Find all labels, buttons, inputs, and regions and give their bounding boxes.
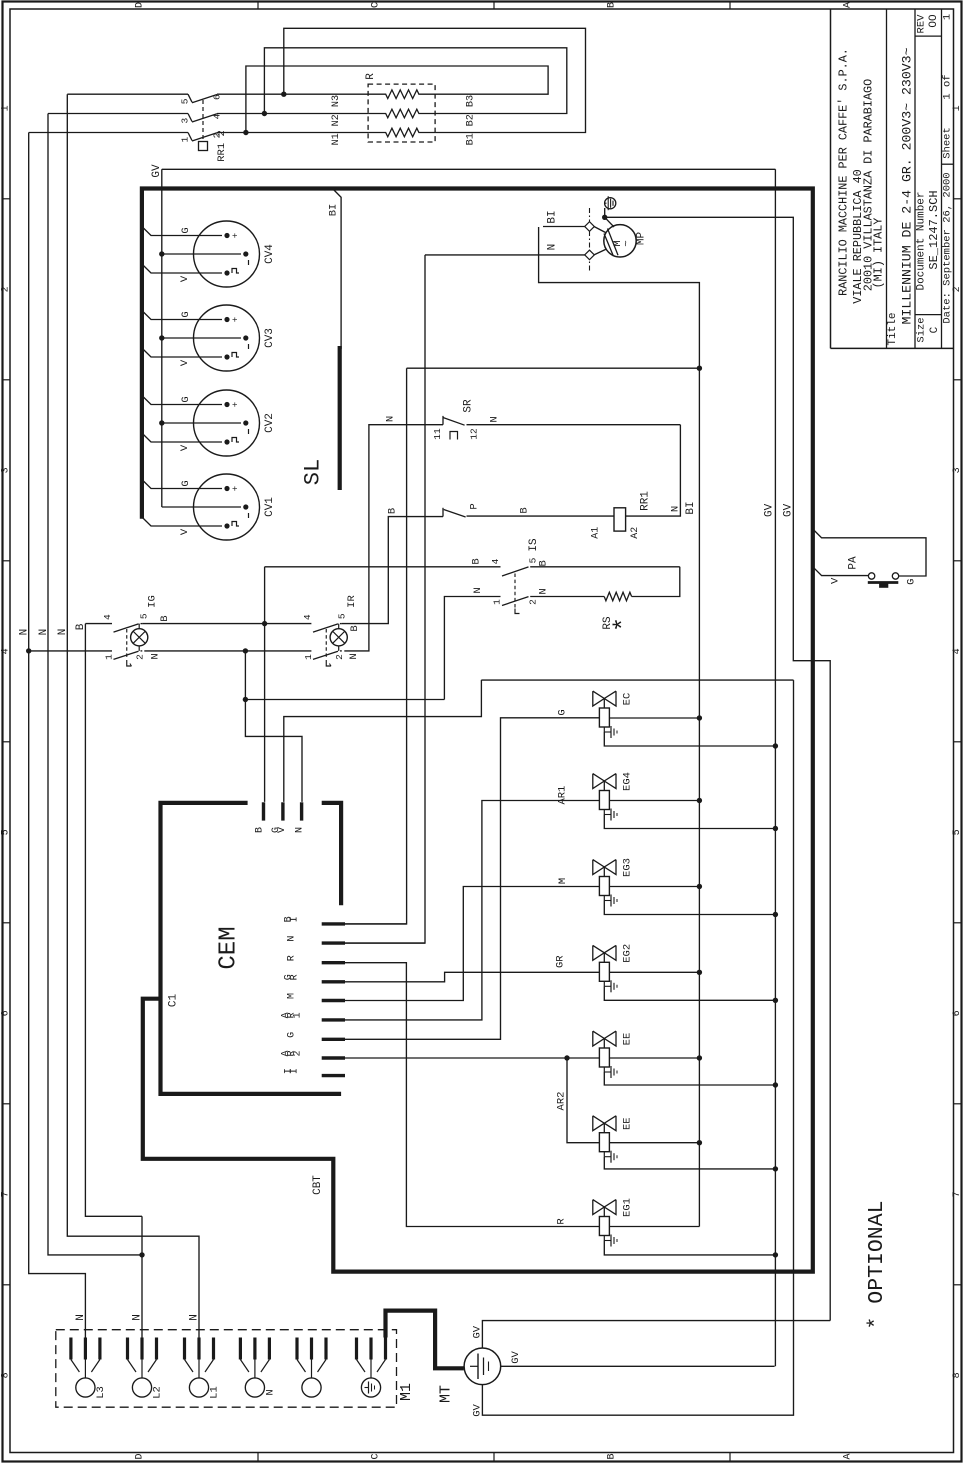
solenoid valve EC: [593, 691, 605, 706]
svg-text:IR: IR: [346, 595, 358, 608]
svg-text:N2: N2: [331, 114, 342, 126]
svg-text:N: N: [150, 653, 162, 659]
EE coil: [599, 1133, 609, 1152]
svg-text:EG1: EG1: [622, 1198, 634, 1217]
junction BI bus at EG3: [697, 884, 702, 889]
svg-text:G: G: [180, 480, 192, 486]
svg-text:Title: Title: [887, 312, 899, 345]
wire N rail R3 to M1-L1: [67, 94, 199, 1337]
junction GV/CV2: [159, 420, 164, 425]
IS latch hook: [515, 609, 520, 614]
pressure switch PA: [868, 573, 874, 579]
wire AR2 pin to EE: [345, 1057, 599, 1059]
svg-text:A2: A2: [630, 527, 641, 539]
EC coil: [599, 708, 609, 727]
main earth terminal MT: [464, 1348, 501, 1385]
svg-text:N: N: [538, 588, 550, 594]
EG3 coil: [599, 877, 609, 896]
svg-text:CV2: CV2: [264, 413, 276, 433]
svg-text:G: G: [556, 709, 568, 715]
CEM pin N: [322, 941, 345, 944]
wire N rail R2 to M1-L2: [48, 114, 142, 1255]
svg-text:V: V: [179, 444, 191, 451]
svg-text:B: B: [255, 827, 266, 833]
wire B rail R4 from M1-L2 to IG: [85, 624, 142, 1217]
junction EE/GV: [773, 1166, 778, 1171]
svg-text:2: 2: [952, 286, 963, 292]
svg-text:GV: GV: [764, 503, 776, 517]
wire G to CV2: [142, 396, 222, 405]
svg-text:3: 3: [952, 467, 963, 473]
svg-text:L2: L2: [152, 1386, 164, 1399]
svg-text:AR2: AR2: [556, 1092, 568, 1111]
svg-text:I: I: [290, 1068, 301, 1074]
pulse glyph: [232, 522, 239, 527]
junction N riser: [243, 648, 248, 653]
junction EE/GV: [773, 1082, 778, 1087]
svg-text:N: N: [669, 506, 681, 512]
M1 terminal L2: [126, 1338, 129, 1360]
wire M pin to EG3: [345, 887, 599, 1001]
CEM pin AR1: [322, 1018, 345, 1021]
svg-text:N: N: [295, 827, 306, 833]
pulse glyph: [232, 438, 239, 443]
svg-text:+: +: [231, 486, 241, 491]
wire AR2 to EE lower: [567, 1058, 599, 1143]
solenoid valve EG1: [593, 1200, 605, 1215]
wire heater loop B2: [264, 48, 566, 114]
junction N branch: [243, 697, 248, 702]
svg-text:CBT: CBT: [312, 1175, 324, 1195]
title block: [830, 9, 832, 348]
wire N riser to CEM pin N(top): [245, 651, 302, 802]
svg-text:N: N: [57, 629, 69, 636]
CEM pin R: [322, 961, 345, 964]
svg-text:B: B: [471, 558, 483, 564]
svg-text:5: 5: [952, 829, 963, 835]
CEM pin GR: [322, 980, 345, 983]
solenoid valve EE: [593, 1031, 605, 1046]
svg-text:Size: Size: [916, 317, 928, 342]
volumetric doser CV1: [194, 474, 260, 540]
junction EG2/GV: [773, 998, 778, 1003]
CEM top pin GV: [281, 802, 284, 820]
CEM top pin B: [262, 802, 265, 820]
lighted switch IR: [310, 623, 312, 625]
CEM top pin N: [300, 802, 303, 820]
svg-text:SL: SL: [301, 459, 326, 485]
EG2 ground symbol: [603, 981, 605, 986]
svg-text:B2: B2: [466, 114, 477, 126]
pulse glyph: [232, 269, 239, 274]
svg-text:M1: M1: [398, 1383, 415, 1401]
wire EG4 to BI bus: [609, 800, 699, 802]
svg-text:G: G: [905, 579, 917, 585]
wire EG3 coil to GV rail: [604, 901, 775, 915]
svg-text:L1: L1: [209, 1386, 221, 1399]
junction B riser/IG-IR wire: [262, 621, 267, 626]
svg-text:G: G: [287, 1032, 298, 1038]
solenoid valve EG3: [593, 860, 605, 875]
PA plate: [868, 581, 899, 584]
switch P: [442, 508, 444, 517]
solenoid valve EG4: [593, 774, 605, 789]
wire to RR1 coil A2: [626, 425, 681, 516]
svg-text:D: D: [135, 2, 146, 8]
svg-text:BI: BI: [327, 204, 339, 217]
CEM pin AR2: [322, 1056, 345, 1059]
contactor RR1 pole 5-6: [188, 94, 192, 102]
svg-text:N: N: [472, 587, 484, 593]
junction EG1/GV: [773, 1252, 778, 1257]
wire EE to BI bus: [609, 1142, 699, 1144]
svg-text:RR1 2: RR1 2: [216, 130, 228, 162]
IG mech link: [126, 629, 128, 659]
wire V to CV2: [142, 433, 222, 442]
svg-text:R: R: [556, 1218, 568, 1225]
wire center to CV2: [162, 422, 241, 424]
wire BI riser to CEM pin BI: [345, 368, 407, 924]
svg-text:1: 1: [952, 105, 963, 111]
svg-text:1: 1: [180, 137, 191, 143]
CEM pin BI: [322, 922, 345, 925]
wire B feed to IS.4: [265, 566, 501, 568]
junction EG4/GV: [773, 826, 778, 831]
wire RS to B row: [632, 567, 680, 597]
svg-text:EC: EC: [622, 693, 634, 706]
PA stem: [880, 584, 888, 587]
svg-text:B: B: [387, 508, 399, 514]
svg-text:5: 5: [1, 829, 12, 835]
terminal block M1 dashed box: [56, 1330, 397, 1408]
EE ground symbol: [603, 1152, 605, 1157]
wire N IR.2 to SR switch: [344, 425, 443, 651]
svg-text:GV: GV: [471, 1404, 483, 1417]
svg-text:BI: BI: [685, 501, 697, 514]
wire heater loop B3: [246, 66, 548, 133]
svg-text:CV1: CV1: [264, 497, 276, 517]
svg-text:4: 4: [102, 614, 113, 620]
wire GV branch horizontal: [481, 679, 793, 681]
svg-text:BI: BI: [547, 210, 559, 223]
volumetric doser CV3: [194, 305, 260, 371]
svg-text:C: C: [929, 326, 941, 333]
wire V to CV3: [142, 348, 222, 357]
svg-text:M: M: [287, 993, 298, 999]
wire BI pin to riser: [345, 923, 407, 925]
svg-text:12: 12: [469, 428, 480, 440]
wire B riser to CEM pin B: [264, 567, 266, 802]
wire EC to BI bus: [609, 717, 699, 719]
junction BI bus at EE: [697, 1140, 702, 1145]
RR1 mechanical link dashed: [202, 100, 204, 141]
junction L2 drop: [139, 1252, 144, 1257]
resistor element at 94.2: [368, 90, 435, 99]
EG4 ground symbol: [603, 810, 605, 815]
M1 terminal L1: [183, 1338, 186, 1360]
svg-text:EE: EE: [622, 1033, 634, 1046]
svg-text:1: 1: [492, 599, 503, 605]
wire EE to BI bus: [609, 1057, 699, 1059]
svg-text:MILLENNIUM DE 2-4 GR. 200V3~ 2: MILLENNIUM DE 2-4 GR. 200V3~ 230V3~: [900, 47, 915, 324]
svg-text:B3: B3: [466, 95, 477, 107]
svg-text:EE: EE: [622, 1117, 634, 1130]
RR1 actuator square: [199, 142, 208, 151]
wire EG3 to BI bus: [609, 886, 699, 888]
wire N rail R1 to M1-L3: [29, 133, 86, 1338]
svg-text:6: 6: [212, 94, 223, 100]
wire EG1 to BI bus: [609, 1226, 699, 1228]
svg-text:OO: OO: [928, 14, 940, 28]
wire N pin to rail: [345, 942, 425, 944]
wire G to CV3: [142, 311, 222, 320]
svg-text:+: +: [231, 317, 241, 322]
svg-text:N: N: [75, 1314, 87, 1321]
svg-text:8: 8: [952, 1372, 963, 1378]
wire GV MT bottom to CEM branch: [482, 680, 793, 1415]
svg-text:4: 4: [952, 648, 963, 654]
svg-text:Document Number: Document Number: [916, 191, 928, 290]
svg-text:N: N: [385, 416, 397, 422]
svg-text:G: G: [180, 396, 192, 402]
junction BI bus at EE: [697, 1055, 702, 1060]
IR latch hook: [326, 660, 331, 666]
svg-text:1: 1: [104, 654, 115, 660]
wire GR pin to EG2: [345, 972, 599, 982]
wire AR1 pin to EG4: [345, 801, 599, 1020]
svg-text:7: 7: [1, 1191, 12, 1197]
resistor element at 132.5: [368, 128, 435, 137]
svg-text:PA: PA: [848, 556, 860, 570]
svg-text:SR: SR: [463, 399, 475, 413]
svg-text:6: 6: [1, 1010, 12, 1016]
wire PA V-side from thick rail: [813, 567, 869, 576]
wire EE coil to GV rail: [604, 1157, 775, 1169]
wire supply row N2: [48, 113, 188, 115]
wire G to CV1: [142, 480, 222, 489]
svg-text:Sheet: Sheet: [942, 127, 954, 159]
wire EG4 coil to GV rail: [604, 815, 775, 829]
svg-text:C: C: [371, 2, 382, 8]
wire N branch to IS: [245, 699, 444, 701]
control unit CEM box: [161, 803, 342, 1094]
wire GV to CEM pin GV: [284, 680, 482, 802]
EC ground symbol: [603, 727, 605, 732]
svg-text:B: B: [518, 507, 530, 513]
svg-text:V: V: [277, 827, 288, 833]
wire R pin to EG1: [345, 963, 599, 1227]
svg-text:~: ~: [621, 240, 633, 246]
svg-text:R: R: [287, 955, 298, 961]
svg-text:(MI) ITALY: (MI) ITALY: [872, 218, 886, 289]
thick enclosure line top edge: [142, 189, 813, 1272]
svg-text:N: N: [188, 1314, 200, 1321]
svg-text:B: B: [75, 623, 87, 630]
SR spring-return glyph: [450, 432, 458, 440]
solenoid valve EE: [593, 1116, 605, 1131]
svg-text:Date: September 26, 2000: Date: September 26, 2000: [942, 172, 954, 323]
svg-text:7: 7: [952, 1191, 963, 1197]
svg-text:3: 3: [1, 467, 12, 473]
svg-text:1: 1: [942, 14, 954, 20]
CEM pin II: [322, 1074, 345, 1077]
svg-text:GR: GR: [555, 955, 567, 968]
wire center to CV4: [162, 253, 241, 255]
svg-text:N: N: [264, 1389, 276, 1395]
svg-text:P: P: [469, 503, 481, 509]
wire heater loop B1: [284, 28, 586, 132]
svg-text:EG3: EG3: [622, 858, 634, 877]
wire V to CV1: [142, 517, 222, 526]
thick bar SL: [338, 346, 342, 490]
svg-text:1 of: 1 of: [942, 74, 954, 99]
svg-text:N: N: [38, 629, 50, 636]
svg-text:N1: N1: [331, 133, 342, 145]
svg-text:+: +: [231, 402, 241, 407]
CEM pin M: [322, 999, 345, 1002]
junction N1/B3: [243, 130, 248, 135]
svg-text:4: 4: [490, 558, 501, 564]
svg-text:2: 2: [135, 654, 146, 660]
wire G pin to EC: [345, 718, 599, 1040]
wire B P out to coil A1: [467, 515, 615, 517]
svg-text:EG4: EG4: [622, 772, 634, 791]
svg-text:3: 3: [180, 118, 191, 124]
svg-text:1: 1: [303, 654, 314, 660]
junction GV/CV4: [159, 251, 164, 256]
svg-text:1: 1: [1, 105, 12, 111]
wire EG2 coil to GV rail: [604, 986, 775, 1000]
svg-text:REV: REV: [916, 14, 928, 34]
wire GV vertical to CV pins: [161, 169, 163, 507]
wire GV MT top to MP rail: [482, 1321, 830, 1348]
svg-text:AR1: AR1: [556, 786, 568, 805]
wire N2 to heater: [217, 113, 368, 115]
junction BI bus at EG2: [697, 970, 702, 975]
svg-text:2: 2: [293, 1050, 304, 1056]
wire supply row N3: [67, 93, 188, 95]
svg-text:G: G: [180, 227, 192, 233]
svg-text:*: *: [609, 617, 638, 632]
svg-text:GV: GV: [510, 1351, 522, 1364]
svg-text:4: 4: [1, 648, 12, 654]
wire BI bus down valves: [698, 368, 700, 1226]
svg-text:C1: C1: [168, 994, 180, 1008]
wire N rail MP to CEM pin N: [345, 255, 425, 943]
MP terminal diamonds + connector line: [589, 208, 591, 272]
svg-text:MT: MT: [437, 1385, 454, 1403]
wire GV top horizontal: [162, 168, 776, 170]
svg-text:MP: MP: [635, 232, 647, 246]
svg-text:N: N: [132, 1314, 144, 1321]
resistor RS (optional): [604, 592, 631, 601]
EG3 ground symbol: [603, 896, 605, 901]
svg-text:EG2: EG2: [622, 944, 634, 963]
M1 terminal L3: [69, 1338, 72, 1360]
wire B from IG.5 to IR.4: [142, 623, 311, 625]
junction AR2 split: [564, 1055, 569, 1060]
wire EC coil to GV rail: [604, 732, 775, 746]
svg-text:11: 11: [432, 428, 443, 440]
IR mech link: [325, 629, 327, 659]
relay coil RR1: [614, 508, 626, 531]
svg-text:N3: N3: [331, 95, 342, 107]
wire V to CV4: [142, 264, 222, 273]
contactor RR1 pole 3-4: [188, 114, 192, 122]
EE ground symbol: [603, 1067, 605, 1072]
EG1 coil: [599, 1217, 609, 1236]
svg-text:4: 4: [302, 614, 313, 620]
volumetric doser CV4: [194, 221, 260, 287]
svg-text:RR1: RR1: [640, 491, 652, 511]
wire B IS.5 out: [530, 566, 680, 568]
svg-text:CV4: CV4: [264, 244, 276, 264]
wire center to CV1: [162, 506, 241, 508]
svg-text:* OPTIONAL: * OPTIONAL: [865, 1200, 889, 1329]
svg-text:M: M: [557, 878, 569, 884]
junction BI bus at EC: [697, 715, 702, 720]
svg-text:2: 2: [528, 599, 539, 605]
svg-text:CEM: CEM: [216, 926, 243, 969]
svg-text:B: B: [607, 2, 618, 8]
junction N rail to IG: [26, 648, 31, 653]
junction EC/GV: [773, 743, 778, 748]
EG2 coil: [599, 962, 609, 981]
svg-text:N: N: [547, 244, 559, 251]
svg-text:5: 5: [180, 98, 191, 104]
M1 terminal N: [239, 1338, 242, 1360]
svg-text:V: V: [179, 528, 191, 535]
svg-text:GV: GV: [783, 503, 795, 517]
M1 terminal: [295, 1338, 298, 1360]
volumetric doser CV2: [194, 390, 260, 456]
wire BI from MP down: [539, 227, 700, 368]
wire MP BI lead: [543, 226, 585, 228]
MP ground symbol: [605, 198, 616, 209]
svg-text:5: 5: [337, 613, 348, 619]
wire EG1 coil to GV rail: [604, 1241, 775, 1255]
wire N feed to IS.1: [444, 597, 500, 700]
lighted switch IG: [85, 623, 112, 625]
wire N1 to heater: [217, 132, 368, 134]
resistor block R dashed box: [368, 84, 435, 142]
svg-text:B: B: [607, 1453, 618, 1459]
junction BI bus at EG4: [697, 798, 702, 803]
wire supply row N1: [29, 132, 188, 134]
svg-text:2: 2: [1, 286, 12, 292]
svg-text:L3: L3: [95, 1386, 107, 1399]
svg-text:+: +: [231, 233, 241, 238]
svg-text:1: 1: [293, 1012, 304, 1018]
junction N2/B1: [262, 111, 267, 116]
svg-text:A: A: [843, 2, 854, 8]
svg-text:A: A: [843, 1453, 854, 1459]
wire BI horizontal: [407, 367, 700, 369]
svg-text:N: N: [489, 416, 501, 422]
svg-text:IG: IG: [147, 595, 159, 608]
svg-text:D: D: [135, 1453, 146, 1459]
svg-text:6: 6: [952, 1010, 963, 1016]
EG4 coil: [599, 791, 609, 810]
wire EE coil to GV rail: [604, 1072, 775, 1085]
junction N3/B2: [281, 92, 286, 97]
switch SR (pressure-return): [442, 416, 444, 425]
svg-text:GV: GV: [471, 1325, 483, 1338]
wire N IS.2 to RS: [530, 596, 604, 598]
wire N from IG.2 to IR.1: [144, 650, 311, 652]
wire MP N lead: [425, 254, 585, 256]
M1 terminal earth: [355, 1338, 358, 1360]
